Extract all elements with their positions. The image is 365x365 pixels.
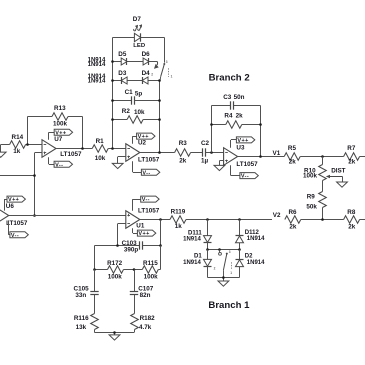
svg-text:V--: V--	[11, 233, 19, 239]
svg-text:3: 3	[229, 250, 231, 254]
svg-text:1N914: 1N914	[247, 260, 265, 266]
svg-text:V++: V++	[55, 130, 66, 136]
svg-text:R13: R13	[54, 105, 66, 112]
svg-text:C1: C1	[125, 89, 134, 96]
resistor R14	[1, 134, 42, 155]
svg-text:82n: 82n	[140, 292, 151, 299]
svg-text:U1: U1	[136, 222, 145, 229]
svg-text:100k: 100k	[53, 121, 68, 128]
svg-text:100k: 100k	[144, 274, 159, 281]
V++ flag U3	[231, 137, 255, 148]
label Branch 2	[209, 73, 250, 84]
diode D3	[118, 70, 127, 84]
svg-text:2k: 2k	[236, 113, 244, 120]
svg-text:V1: V1	[273, 150, 281, 157]
diode D111	[183, 220, 211, 250]
diode D5	[118, 51, 127, 65]
wire	[160, 220, 162, 246]
resistor R6	[285, 209, 344, 231]
resistor R9	[306, 192, 326, 220]
wire	[164, 38, 166, 63]
V-- flag U6	[8, 220, 28, 238]
capacitor C2	[201, 140, 224, 165]
diode D6	[142, 51, 151, 65]
svg-text:V--: V--	[241, 174, 249, 180]
wire	[140, 219, 170, 221]
svg-text:3: 3	[166, 60, 168, 64]
svg-text:R4: R4	[224, 113, 233, 120]
switch S2	[151, 60, 172, 81]
wire	[208, 219, 273, 221]
LED D7	[133, 16, 145, 49]
wire	[160, 246, 162, 270]
svg-text:D112: D112	[245, 230, 260, 236]
wire	[27, 117, 29, 145]
svg-text:1N914: 1N914	[183, 260, 201, 266]
svg-text:U3: U3	[236, 144, 245, 151]
svg-text:D5: D5	[118, 51, 127, 58]
node	[111, 60, 161, 121]
svg-text:V2: V2	[273, 212, 281, 219]
wire	[112, 38, 114, 149]
node	[210, 123, 262, 126]
svg-text:50k: 50k	[306, 203, 317, 210]
V++ flag U7	[49, 129, 73, 139]
resistor R2	[113, 108, 160, 124]
svg-text:R7: R7	[347, 145, 356, 152]
V-- flag U1	[133, 196, 160, 211]
svg-text:R5: R5	[288, 145, 297, 152]
svg-text:V++: V++	[237, 138, 248, 144]
node	[321, 155, 324, 158]
node	[321, 218, 324, 221]
resistor R13	[28, 105, 83, 128]
svg-text:V++: V++	[138, 134, 149, 140]
svg-text:50n: 50n	[234, 94, 245, 101]
svg-text:Branch 1: Branch 1	[208, 300, 250, 311]
wire	[35, 153, 43, 216]
resistor R119	[170, 209, 208, 231]
wire	[211, 106, 213, 153]
resistor R4	[212, 113, 261, 129]
resistor R7	[344, 145, 365, 165]
node V1	[273, 150, 281, 157]
svg-text:2: 2	[214, 266, 216, 270]
op-amp U1	[126, 208, 160, 230]
diode D4	[142, 70, 151, 84]
wire	[208, 249, 240, 251]
svg-text:R115: R115	[143, 260, 158, 267]
svg-text:C2: C2	[201, 140, 210, 147]
node	[81, 147, 114, 150]
svg-text:10k: 10k	[134, 109, 145, 116]
svg-text:DIST: DIST	[331, 167, 345, 174]
wire	[9, 215, 126, 217]
node	[116, 244, 162, 247]
svg-text:U2: U2	[138, 140, 147, 147]
svg-text:4.7k: 4.7k	[139, 324, 152, 331]
svg-text:D2: D2	[245, 254, 253, 260]
label 1N914 D4	[88, 78, 106, 84]
op-amp U3	[224, 144, 259, 167]
potentiometer R10	[303, 157, 346, 192]
node	[206, 248, 241, 251]
wire	[118, 224, 126, 246]
resistor R1	[56, 138, 126, 162]
node	[259, 155, 262, 158]
V-- flag U2	[133, 161, 160, 176]
V++ flag U2	[133, 133, 156, 144]
wire	[140, 152, 175, 154]
svg-text:1N914: 1N914	[88, 62, 106, 68]
node	[93, 268, 135, 271]
svg-text:R116: R116	[74, 315, 89, 322]
svg-text:V--: V--	[142, 170, 150, 176]
svg-text:D3: D3	[118, 70, 127, 77]
V-- flag U7	[49, 157, 73, 168]
svg-text:V++: V++	[138, 231, 149, 237]
svg-text:2k: 2k	[179, 158, 187, 165]
wire	[113, 80, 160, 82]
svg-text:U7: U7	[54, 136, 63, 143]
wire	[113, 61, 158, 63]
svg-text:2k: 2k	[289, 223, 297, 230]
svg-text:2k: 2k	[348, 223, 356, 230]
svg-text:R6: R6	[289, 209, 298, 216]
label Branch 1	[208, 300, 250, 311]
ground	[112, 157, 126, 169]
svg-text:100k: 100k	[108, 274, 123, 281]
svg-text:2k: 2k	[289, 158, 297, 165]
svg-text:1: 1	[171, 75, 173, 79]
svg-text:100k: 100k	[303, 173, 318, 180]
node	[26, 143, 29, 146]
svg-text:R2: R2	[122, 108, 131, 115]
wire	[0, 175, 35, 177]
svg-text:1µ: 1µ	[201, 158, 209, 165]
svg-text:5p: 5p	[135, 90, 143, 97]
svg-text:R1: R1	[96, 138, 105, 145]
label 1N914 D3	[88, 74, 106, 80]
V++ flag U6	[4, 196, 25, 211]
svg-text:LT1057: LT1057	[138, 208, 160, 215]
wire	[113, 37, 165, 39]
svg-text:D1: D1	[194, 254, 202, 260]
node	[210, 151, 213, 154]
diode D2	[236, 250, 266, 278]
svg-text:U6: U6	[6, 203, 15, 210]
resistor R182	[131, 314, 155, 333]
svg-text:LT1057: LT1057	[6, 220, 28, 227]
resistor R8	[344, 209, 365, 231]
svg-text:13k: 13k	[76, 324, 87, 331]
svg-text:D7: D7	[133, 16, 142, 23]
svg-text:V++: V++	[8, 197, 19, 203]
svg-text:1N914: 1N914	[88, 78, 106, 84]
op-amp U7	[42, 136, 82, 158]
label 1N914 D6	[88, 62, 106, 68]
ground	[218, 276, 229, 286]
op-amp U2	[126, 140, 160, 164]
svg-text:2: 2	[151, 73, 153, 77]
switch S1	[214, 250, 233, 278]
capacitor C105	[74, 270, 99, 314]
wire	[82, 117, 84, 149]
V-- flag U3	[231, 165, 259, 179]
svg-text:D6: D6	[142, 51, 151, 58]
node V2	[273, 212, 281, 219]
diode D112	[236, 220, 266, 250]
V++ flag U1	[133, 228, 156, 237]
svg-text:1k: 1k	[13, 148, 21, 155]
ground	[0, 145, 6, 158]
svg-text:LT1057: LT1057	[60, 151, 82, 158]
svg-text:LT1057: LT1057	[236, 161, 258, 168]
ground	[109, 331, 120, 340]
svg-text:R172: R172	[107, 260, 123, 267]
resistor R115	[134, 260, 161, 281]
svg-text:LT1057: LT1057	[138, 156, 160, 163]
svg-text:1k: 1k	[175, 223, 183, 230]
wire	[94, 246, 96, 270]
wire	[238, 156, 285, 158]
svg-text:R119: R119	[171, 209, 186, 216]
svg-text:LED: LED	[133, 43, 145, 49]
capacitor C103	[95, 240, 161, 254]
svg-text:390p: 390p	[124, 247, 139, 254]
node	[33, 174, 36, 217]
wire	[95, 332, 135, 334]
node	[159, 218, 162, 221]
svg-text:Branch 2: Branch 2	[209, 73, 250, 84]
capacitor C3	[212, 94, 261, 110]
svg-text:R182: R182	[140, 315, 156, 322]
resistor R172	[95, 260, 135, 281]
svg-text:1: 1	[230, 271, 232, 275]
svg-text:R3: R3	[179, 140, 188, 147]
resistor R116	[74, 314, 98, 333]
label 1N914 D5	[88, 57, 106, 63]
svg-text:V--: V--	[142, 197, 150, 203]
svg-text:R8: R8	[347, 209, 356, 216]
ground	[337, 177, 348, 188]
wire	[208, 277, 240, 279]
svg-text:1N914: 1N914	[183, 237, 201, 243]
capacitor C1	[113, 89, 160, 105]
svg-text:D111: D111	[188, 230, 202, 236]
resistor R5	[284, 145, 343, 165]
svg-text:1N914: 1N914	[247, 236, 265, 242]
svg-text:R9: R9	[307, 193, 316, 200]
svg-text:C3: C3	[223, 94, 232, 101]
svg-text:D4: D4	[142, 70, 151, 77]
wire	[159, 81, 161, 153]
svg-text:R14: R14	[12, 134, 24, 141]
svg-text:10k: 10k	[95, 155, 106, 162]
capacitor C107	[130, 270, 154, 314]
svg-text:2k: 2k	[348, 158, 356, 165]
node	[206, 218, 241, 221]
diode D1	[183, 250, 211, 278]
node	[158, 151, 161, 154]
svg-text:33n: 33n	[75, 292, 86, 299]
ground	[214, 161, 225, 171]
svg-text:V--: V--	[55, 162, 63, 168]
op-amp U6	[0, 203, 28, 227]
resistor R3	[175, 140, 203, 165]
wire	[260, 106, 262, 157]
